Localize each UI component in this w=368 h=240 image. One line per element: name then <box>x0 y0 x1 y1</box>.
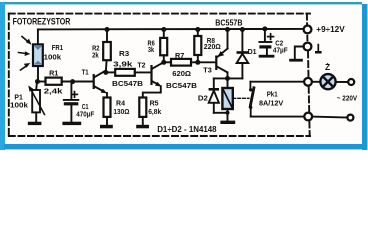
svg-text:3k: 3k <box>148 45 155 54</box>
ground at 0V terminal <box>289 59 303 62</box>
ground below coil <box>220 121 235 124</box>
svg-text:D1: D1 <box>248 47 257 56</box>
page background <box>0 0 368 150</box>
dashed schematic border box <box>9 14 310 136</box>
resistor R2 <box>105 27 110 32</box>
svg-text:6,8k: 6,8k <box>148 107 162 116</box>
photoresistor FR1 <box>33 44 43 66</box>
svg-text:BC547B: BC547B <box>166 81 197 90</box>
small terminal right bottom <box>347 115 353 121</box>
resistor R3 <box>106 71 115 73</box>
node C junction dot <box>103 70 108 75</box>
wire: P1 to ground <box>35 112 37 121</box>
svg-text:~ 220V: ~ 220V <box>337 93 357 102</box>
potentiometer P1 <box>35 82 38 91</box>
svg-text:T2: T2 <box>137 60 145 69</box>
small terminal right top <box>348 79 354 85</box>
top supply rail wire <box>38 28 304 31</box>
resistor R6 <box>161 27 166 32</box>
wire terminal to lamp <box>312 81 321 83</box>
transistor T1 <box>93 74 95 89</box>
diode D1 <box>240 27 245 32</box>
C2 plus sign <box>268 34 274 40</box>
transistor T2 <box>150 65 152 85</box>
cyan frame right band <box>362 4 367 150</box>
svg-text:100k: 100k <box>44 52 62 61</box>
svg-text:2,4k: 2,4k <box>44 87 64 96</box>
node A junction dot <box>35 79 40 84</box>
svg-text:620Ω: 620Ω <box>172 69 191 78</box>
wire: D2 bottom to coil bottom <box>214 112 228 114</box>
svg-text:100k: 100k <box>10 101 29 110</box>
wire: T3 emitter up to rail <box>227 30 229 49</box>
node B junction dot <box>70 79 75 84</box>
lamp Z <box>320 74 335 89</box>
cyan frame left band <box>0 2 5 150</box>
svg-text:BC547B: BC547B <box>112 79 143 88</box>
wire: 0V terminal to ground <box>295 47 304 59</box>
ground below R4 <box>100 125 113 129</box>
svg-text:R1: R1 <box>49 69 58 78</box>
svg-text:+9÷12V: +9÷12V <box>316 25 345 34</box>
lamp circuit terminal left <box>304 78 312 86</box>
svg-text:2k: 2k <box>92 50 99 59</box>
wire lamp to right terminal <box>336 81 349 83</box>
transistor T3 <box>215 56 217 71</box>
svg-text:D2: D2 <box>198 94 208 103</box>
wire: contact bottom to terminal <box>251 116 304 118</box>
wire bottom to right terminal <box>312 116 347 119</box>
resistor R7 <box>164 61 171 63</box>
svg-text:3,9k: 3,9k <box>113 59 133 68</box>
cyan frame top line <box>0 2 362 4</box>
C1 plus sign <box>72 92 78 98</box>
wire: T1 collector up to node C <box>105 71 107 73</box>
svg-text:T1: T1 <box>82 67 89 76</box>
wire: contact row to lamp terminal <box>250 81 304 83</box>
terminal +9-12V <box>304 26 312 34</box>
node D junction dot <box>161 60 166 65</box>
wire: rail corner down to FR1 <box>37 29 39 45</box>
svg-text:470µF: 470µF <box>76 110 94 119</box>
FR1 light arrow 3 <box>21 63 31 70</box>
capacitor C1 <box>70 82 72 100</box>
wire: node F horizontal <box>214 77 243 79</box>
svg-text:FR1: FR1 <box>52 43 63 52</box>
wire: T3 collector down to node F <box>227 72 229 78</box>
svg-text:220Ω: 220Ω <box>204 42 221 51</box>
ground below C2 <box>259 55 275 58</box>
dashed link coil to contact <box>233 97 249 99</box>
wire: T2 emitter jog to R5 <box>143 86 161 97</box>
wire: FR1 bottom to node A <box>37 67 39 82</box>
P1 wiper arrow <box>28 85 44 114</box>
svg-text:FOTOREZYSTOR: FOTOREZYSTOR <box>13 16 71 27</box>
svg-text:R3: R3 <box>119 49 129 58</box>
diode D2 <box>213 78 215 88</box>
cyan frame bottom band <box>4 144 364 149</box>
svg-text:130Ω: 130Ω <box>113 107 129 116</box>
resistor R4 <box>104 98 111 117</box>
node F junction dot <box>225 76 230 81</box>
capacitor C2 <box>262 26 267 31</box>
relay coil Pk1 <box>227 78 229 88</box>
FR1 light arrow 2 <box>19 51 31 56</box>
svg-text:R7: R7 <box>175 51 184 60</box>
bottom terminal <box>304 113 312 121</box>
ground below R5 <box>136 125 149 129</box>
svg-text:Ż: Ż <box>325 62 330 72</box>
wire: T1 emitter down to R4 <box>106 93 108 98</box>
resistor R5 <box>139 98 146 117</box>
svg-text:D1÷D2 - 1N4148: D1÷D2 - 1N4148 <box>157 124 217 134</box>
svg-text:T3: T3 <box>203 66 211 75</box>
resistor R8 <box>195 27 200 32</box>
resistor R1 <box>38 81 46 83</box>
svg-text:47µF: 47µF <box>273 45 288 54</box>
ground below C1 <box>62 122 81 125</box>
small ground glyph right of terminal <box>317 45 319 51</box>
ground below P1 <box>28 122 42 125</box>
relay contact Pk1 <box>249 82 251 89</box>
FR1 light arrow 1 <box>22 37 32 45</box>
svg-text:Pk1: Pk1 <box>267 89 278 98</box>
wire: R1 to T1 base <box>62 81 93 83</box>
svg-text:BC557B: BC557B <box>215 18 242 27</box>
svg-text:8A/12V: 8A/12V <box>259 99 283 108</box>
node E junction dot <box>195 60 200 65</box>
terminal 0V <box>304 43 312 51</box>
